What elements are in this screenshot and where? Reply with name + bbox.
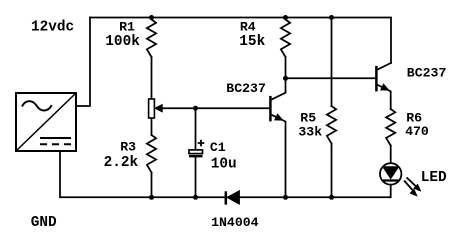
LED cathode bar bbox=[383, 179, 399, 181]
wire potentiometer to R3 bbox=[151, 118, 153, 135]
node dot wiper/C1 bbox=[193, 106, 198, 111]
capacitor C1 top plate bbox=[189, 150, 203, 154]
node dot R5 bottom bbox=[329, 195, 334, 200]
node dot R1 top bbox=[149, 15, 154, 20]
svg-text:15k: 15k bbox=[239, 34, 265, 50]
svg-text:10u: 10u bbox=[211, 157, 237, 173]
capacitor C1 bottom plate bbox=[189, 155, 203, 157]
svg-text:R3: R3 bbox=[120, 139, 136, 154]
transistor Q2 base bar bbox=[375, 66, 378, 92]
transistor Q1 base bar bbox=[269, 96, 272, 122]
svg-text:2.2k: 2.2k bbox=[104, 155, 139, 171]
svg-text:R4: R4 bbox=[240, 20, 256, 35]
transistor Q1 emitter arrow bbox=[275, 114, 283, 120]
power supply sine wave bbox=[22, 101, 52, 110]
LED light arrow 1 bbox=[407, 177, 418, 187]
transistor Q2 collector bbox=[377, 63, 391, 70]
LED triangle bbox=[383, 167, 399, 179]
svg-text:R5: R5 bbox=[300, 110, 316, 125]
LED circle bbox=[380, 163, 401, 184]
wire R3 to bottom rail bbox=[151, 173, 153, 198]
transistor Q2 emitter arrow bbox=[381, 84, 389, 90]
wire node to Q2 base bbox=[286, 77, 377, 79]
resistor R1 bbox=[147, 18, 156, 58]
transistor Q1 collector bbox=[271, 78, 286, 100]
capacitor C1 plus sign bbox=[198, 140, 205, 147]
diode D1 cathode bar bbox=[225, 191, 228, 204]
resistor R6 bbox=[386, 109, 395, 146]
svg-text:C1: C1 bbox=[210, 140, 226, 155]
wire C1 bottom lead bbox=[195, 157, 197, 198]
power supply box bbox=[16, 93, 76, 151]
transistor Q2 emitter bbox=[377, 85, 391, 109]
resistor R4 bbox=[281, 18, 290, 58]
svg-text:R1: R1 bbox=[119, 20, 135, 35]
LED light arrow 2 bbox=[404, 181, 413, 191]
node dot R3 bottom bbox=[149, 195, 154, 200]
svg-text:470: 470 bbox=[405, 124, 429, 139]
svg-text:GND: GND bbox=[31, 215, 57, 231]
svg-text:LED: LED bbox=[421, 170, 447, 186]
wire R1 to potentiometer bbox=[151, 57, 153, 99]
wire R6 to LED bbox=[390, 146, 392, 163]
wire R5 top lead bbox=[331, 18, 333, 107]
svg-text:1N4004: 1N4004 bbox=[211, 215, 259, 230]
wire R5 bottom lead bbox=[331, 144, 333, 198]
diode D1 triangle bbox=[227, 191, 239, 204]
wire C1 top lead bbox=[195, 108, 197, 150]
wire left vertical from top rail to supply box bbox=[76, 18, 90, 107]
svg-text:BC237: BC237 bbox=[226, 81, 266, 96]
transistor Q1 emitter bbox=[271, 115, 286, 198]
node dot C1 bottom bbox=[193, 195, 198, 200]
node dot R4/Q1 collector/Q2 base bbox=[283, 76, 288, 81]
resistor R3 bbox=[147, 135, 156, 173]
potentiometer wiper arrow bbox=[155, 105, 162, 112]
wire R4 to node bbox=[285, 57, 287, 78]
potentiometer body bbox=[149, 99, 155, 118]
svg-text:12vdc: 12vdc bbox=[31, 20, 74, 36]
power supply DC solid line bbox=[40, 137, 71, 139]
svg-text:BC237: BC237 bbox=[407, 65, 447, 80]
wire top rail with corner down to Q2 collector bbox=[90, 18, 391, 63]
wire wiper to Q1 base bbox=[158, 107, 270, 109]
power supply diagonal bbox=[16, 93, 76, 151]
node dot Q1 emitter bottom bbox=[283, 195, 288, 200]
wire bottom rail with left riser to supply box and right riser to LED bbox=[60, 151, 391, 197]
node dot R5 top bbox=[329, 15, 334, 20]
resistor R5 bbox=[327, 106, 336, 144]
svg-text:100k: 100k bbox=[105, 34, 140, 50]
node dot R4 top bbox=[283, 15, 288, 20]
power supply DC dashed line bbox=[40, 143, 71, 145]
svg-text:33k: 33k bbox=[298, 124, 322, 139]
